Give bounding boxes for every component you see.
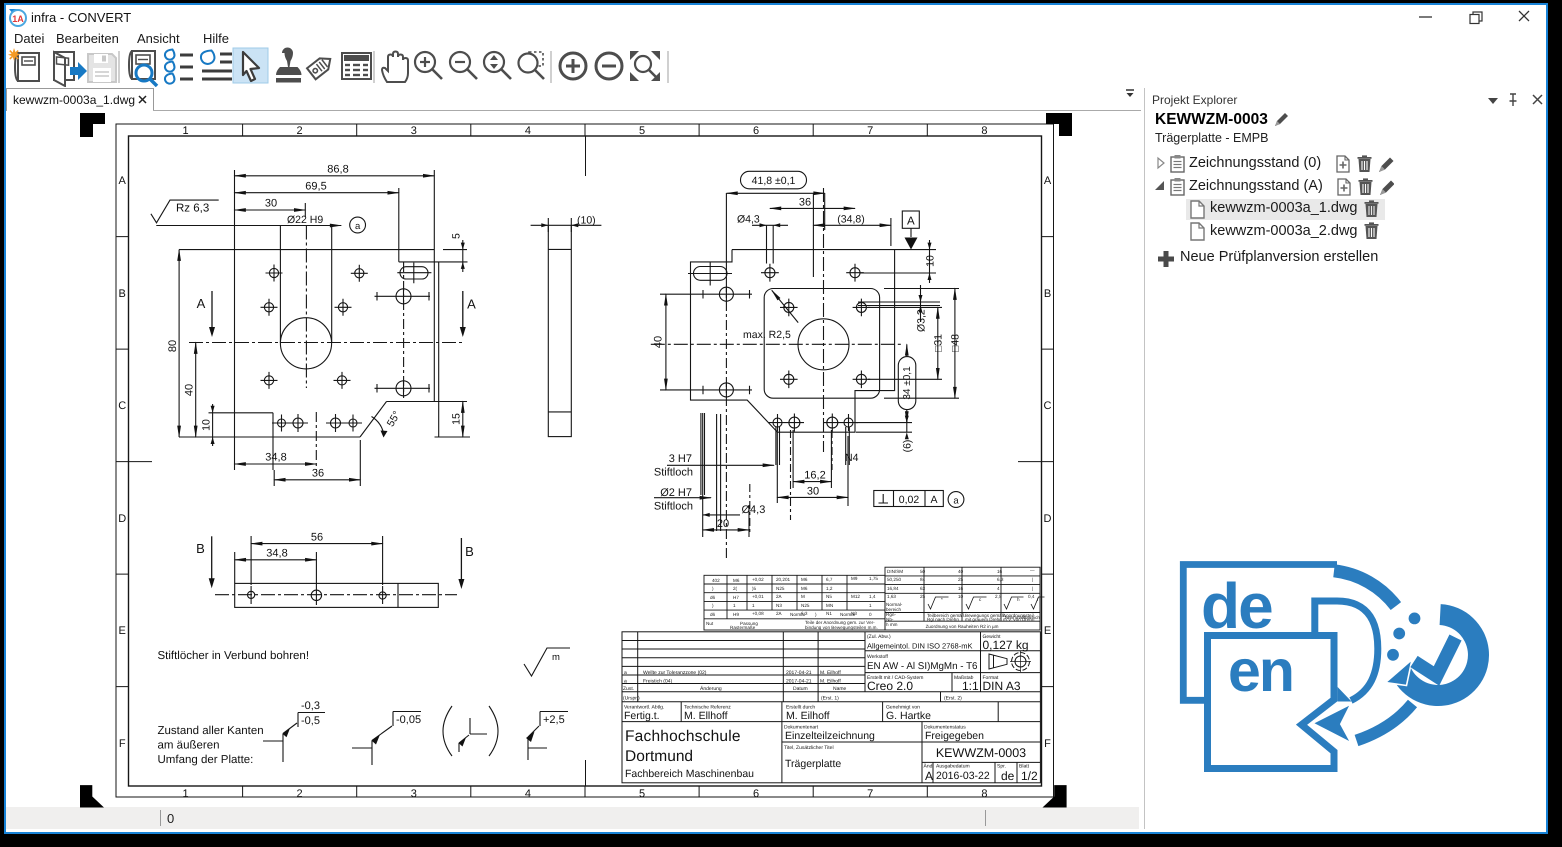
svg-text:Werkstoff: Werkstoff xyxy=(867,654,889,660)
svg-text:25: 25 xyxy=(958,577,964,582)
svg-text:55°: 55° xyxy=(385,409,403,429)
status bar xyxy=(6,807,1139,829)
toolbar xyxy=(0,47,700,87)
svg-text:M. Eilhoff: M. Eilhoff xyxy=(820,670,841,676)
svg-text:c: c xyxy=(979,597,982,602)
svg-text:Dortmund: Dortmund xyxy=(625,748,693,765)
svg-text:(Erst. 1): (Erst. 1) xyxy=(821,696,839,702)
dots xyxy=(1409,613,1421,625)
svg-text:A: A xyxy=(197,296,206,311)
svg-text:1,75: 1,75 xyxy=(869,576,878,581)
drawing-area dropdown chevron xyxy=(1123,87,1137,99)
svg-text:7: 7 xyxy=(867,125,873,137)
plate outline xyxy=(691,250,895,433)
svg-text:+0,02: +0,02 xyxy=(752,577,764,582)
svg-text:Nut: Nut xyxy=(706,621,714,626)
svg-text:+0,01: +0,01 xyxy=(752,594,764,599)
dim (34,8) xyxy=(813,224,891,226)
row 4: kewwzm-0003a_2.dwg xyxy=(1190,222,1390,242)
extension verticals top dims xyxy=(179,170,434,402)
top row holes xyxy=(761,264,864,282)
ring arrowhead xyxy=(1386,660,1413,686)
svg-text:□48: □48 xyxy=(950,334,962,352)
svg-text:10: 10 xyxy=(925,255,937,267)
svg-text:2(: 2( xyxy=(733,586,738,591)
svg-text:EN AW - Al SI)MgMn - T6: EN AW - Al SI)MgMn - T6 xyxy=(867,661,978,672)
dim (10) xyxy=(531,224,602,226)
svg-text:6,7: 6,7 xyxy=(826,577,833,582)
list drops xyxy=(165,50,193,84)
svg-text:15: 15 xyxy=(451,413,463,425)
svg-text:a: a xyxy=(953,495,959,506)
svg-text:Stiftlöcher in Verbund bohren!: Stiftlöcher in Verbund bohren! xyxy=(158,650,310,662)
svg-text:N25: N25 xyxy=(776,586,785,591)
svg-text:Freistich (04): Freistich (04) xyxy=(643,678,673,684)
check ring (annulus sector) xyxy=(1392,604,1489,706)
svg-text:A: A xyxy=(467,297,476,312)
svg-text:8: 8 xyxy=(981,125,987,137)
svg-text:Titel, Zusätzlicher Titel: Titel, Zusätzlicher Titel xyxy=(784,745,834,751)
svg-text:10: 10 xyxy=(958,594,964,599)
svg-text:Ø4,3: Ø4,3 xyxy=(742,504,766,516)
svg-text:|: | xyxy=(1032,577,1033,582)
signature row verticals xyxy=(681,702,998,722)
svg-text:E: E xyxy=(1044,625,1051,637)
svg-text:5: 5 xyxy=(639,788,645,800)
svg-text:DIN A3: DIN A3 xyxy=(983,679,1021,693)
svg-text:d6: d6 xyxy=(710,612,716,617)
svg-text:1,2: 1,2 xyxy=(826,586,833,591)
svg-text:N3: N3 xyxy=(776,603,782,608)
check m symbol xyxy=(524,648,570,676)
svg-text:25: 25 xyxy=(920,594,926,599)
svg-text:0: 0 xyxy=(869,612,872,617)
section A-A xyxy=(209,291,466,337)
corner leader max R2,5 xyxy=(772,290,798,322)
svg-text:10: 10 xyxy=(201,419,213,431)
dim 36 bottom xyxy=(274,479,360,481)
svg-text:A: A xyxy=(1044,175,1052,187)
svg-text:A: A xyxy=(907,216,915,228)
svg-text:30: 30 xyxy=(265,198,277,210)
front square (en) with white fill and arrow notch xyxy=(1208,636,1335,769)
svg-text:F: F xyxy=(1044,738,1051,750)
svg-text:h mm: h mm xyxy=(886,622,898,627)
edge symbol 4 xyxy=(526,712,568,761)
svg-text:20,201: 20,201 xyxy=(776,577,790,582)
svg-text:Creo 2.0: Creo 2.0 xyxy=(867,679,913,693)
thin side view xyxy=(548,225,571,436)
svg-text:M6: M6 xyxy=(801,586,808,591)
A flag xyxy=(902,211,919,228)
tolerance table left xyxy=(704,575,885,630)
svg-text:6,3: 6,3 xyxy=(997,577,1004,582)
svg-text:0,4: 0,4 xyxy=(1028,594,1035,599)
svg-text:): ) xyxy=(815,612,817,617)
svg-text:Normal: Normal xyxy=(790,612,805,617)
tag xyxy=(307,53,335,79)
svg-text:(Urspr.): (Urspr.) xyxy=(623,696,640,702)
svg-text:84: 84 xyxy=(920,577,926,582)
svg-text:Freigegeben: Freigegeben xyxy=(925,730,984,742)
svg-text:M6: M6 xyxy=(801,577,808,582)
svg-text:*: * xyxy=(941,597,943,602)
bottom holes xyxy=(769,414,859,432)
centering marks xyxy=(129,136,1042,786)
svg-text:MN: MN xyxy=(826,603,833,608)
sep xyxy=(550,51,552,83)
svg-text:a: a xyxy=(355,221,361,232)
svg-text:4: 4 xyxy=(997,586,1000,591)
stamp xyxy=(276,48,302,83)
svg-text:Änderung: Änderung xyxy=(700,685,722,692)
svg-text:Ø4,3: Ø4,3 xyxy=(737,214,760,226)
tiny illegible table text (approximation) xyxy=(706,568,1040,630)
svg-text:|: | xyxy=(1032,586,1033,591)
row 1: Zeichnungsstand (0) xyxy=(1154,154,1394,174)
svg-text:de: de xyxy=(1001,769,1015,783)
svg-text:Ø3,2: Ø3,2 xyxy=(916,309,928,332)
svg-text:5: 5 xyxy=(451,233,463,239)
zoom updown xyxy=(484,52,511,79)
sep xyxy=(118,51,120,83)
tolerance frame xyxy=(874,491,964,508)
svg-text:1: 1 xyxy=(182,125,188,137)
svg-text:am äußeren: am äußeren xyxy=(158,740,220,752)
svg-text:A: A xyxy=(925,769,933,783)
projection doubles xyxy=(767,225,774,263)
svg-text:1/2: 1/2 xyxy=(1021,769,1038,783)
svg-text:36: 36 xyxy=(799,197,811,209)
open xyxy=(54,52,87,86)
svg-text:1: 1 xyxy=(733,603,736,608)
svg-text:4: 4 xyxy=(525,788,531,800)
slot top right xyxy=(397,263,431,284)
small arrow at D end xyxy=(1338,687,1352,702)
55 deg arc + label xyxy=(372,417,385,436)
svg-text:2A: 2A xyxy=(776,594,783,599)
sheet frame inner xyxy=(129,136,1042,786)
svg-text:de: de xyxy=(1201,570,1272,642)
holes with long bars right col xyxy=(375,288,431,397)
dim 86,8 xyxy=(235,175,435,177)
trash xyxy=(1358,155,1372,172)
svg-text:Einzelteilzeichnung: Einzelteilzeichnung xyxy=(785,730,875,742)
svg-text:(Zul. Abw.): (Zul. Abw.) xyxy=(867,634,891,640)
svg-text:16: 16 xyxy=(997,569,1003,574)
svg-text:E: E xyxy=(119,625,126,637)
svg-text:N4: N4 xyxy=(845,452,859,464)
svg-text:1,4: 1,4 xyxy=(869,594,876,599)
svg-text:C: C xyxy=(1044,400,1052,412)
big circle + projection lines xyxy=(280,318,331,369)
tolerance table right xyxy=(885,567,1045,630)
svg-text:50,250: 50,250 xyxy=(887,577,901,582)
svg-text:Rgl nach Drehn: Rgl nach Drehn xyxy=(927,617,959,622)
svg-text:N5: N5 xyxy=(826,594,832,599)
svg-text:+0,08: +0,08 xyxy=(752,611,764,616)
plate outline xyxy=(179,188,468,470)
svg-text:)5: )5 xyxy=(752,586,757,591)
svg-text:H7: H7 xyxy=(733,595,739,600)
svg-text:80: 80 xyxy=(167,340,179,352)
svg-text:Fachhochschule: Fachhochschule xyxy=(625,728,741,745)
svg-text:d6: d6 xyxy=(710,595,716,600)
svg-text:69,5: 69,5 xyxy=(305,181,326,193)
svg-text:bindung von Bewegungsteilen m.: bindung von Bewegungsteilen m.m. xyxy=(805,625,878,630)
svg-text:(10): (10) xyxy=(577,215,596,227)
svg-text:Ausgabedatum: Ausgabedatum xyxy=(936,764,970,770)
big outer arc top xyxy=(1334,571,1396,606)
ruler numbers xyxy=(118,125,1052,800)
pencil xyxy=(1379,158,1394,173)
svg-text:63: 63 xyxy=(920,586,926,591)
svg-text:Normal: Normal xyxy=(840,612,855,617)
svg-text:2: 2 xyxy=(297,125,303,137)
check mark xyxy=(1414,638,1456,677)
svg-text:2017-04-21: 2017-04-21 xyxy=(786,678,812,684)
centerlines xyxy=(189,342,463,344)
new-page icon xyxy=(1337,156,1349,172)
svg-text:16,84: 16,84 xyxy=(887,586,899,591)
document tab xyxy=(6,88,154,111)
svg-text:N25: N25 xyxy=(801,603,810,608)
balloon 41,8 xyxy=(726,171,824,282)
right section xyxy=(865,632,981,692)
svg-text:M. Eilhoff: M. Eilhoff xyxy=(820,678,841,684)
svg-text:B: B xyxy=(119,288,126,300)
svg-text:34 ±0,1: 34 ±0,1 xyxy=(902,366,913,400)
svg-text:Allgemeintol. DIN ISO 2768-mK: Allgemeintol. DIN ISO 2768-mK xyxy=(867,642,972,651)
cursor (selected) xyxy=(233,48,268,83)
window buttons xyxy=(1405,8,1540,26)
app icon xyxy=(8,8,27,27)
svg-text:1:1: 1:1 xyxy=(962,679,979,693)
zoom out xyxy=(450,52,477,79)
left col holes with bars xyxy=(700,286,752,397)
svg-text:2017-04-21: 2017-04-21 xyxy=(786,670,812,676)
svg-text:8: 8 xyxy=(981,788,987,800)
dim 34,8 bottom xyxy=(235,463,317,465)
slot top-left xyxy=(688,262,732,286)
svg-text:N1: N1 xyxy=(826,611,832,616)
svg-text:□31: □31 xyxy=(933,334,945,352)
svg-text:40: 40 xyxy=(958,569,964,574)
projection symbol xyxy=(989,651,1031,672)
svg-text:A: A xyxy=(119,175,127,187)
svg-text:M. Eilhoff: M. Eilhoff xyxy=(786,710,830,722)
svg-text:D: D xyxy=(118,513,126,525)
svg-text:1: 1 xyxy=(182,788,188,800)
svg-text:(34,8): (34,8) xyxy=(837,214,864,226)
svg-text:D: D xyxy=(1044,513,1052,525)
svg-text:C: C xyxy=(118,400,126,412)
book search xyxy=(129,51,157,86)
svg-text:30: 30 xyxy=(807,486,819,498)
svg-text:M9: M9 xyxy=(851,576,858,581)
svg-text:—: — xyxy=(1030,568,1035,573)
svg-text:Wellte zur Toleranzzone (02): Wellte zur Toleranzzone (02) xyxy=(643,670,707,676)
zoom rect xyxy=(519,52,545,79)
svg-text:): ) xyxy=(712,603,714,608)
balloon 34 +-0,1 xyxy=(856,344,916,422)
svg-text:Fachbereich Maschinenbau: Fachbereich Maschinenbau xyxy=(625,768,754,780)
dim O4,3 top xyxy=(752,224,788,226)
svg-text:en: en xyxy=(1228,638,1293,704)
svg-text:Nennmaßbereich: Nennmaßbereich xyxy=(1005,615,1041,620)
svg-text:Stiftloch: Stiftloch xyxy=(654,467,693,479)
svg-text:5: 5 xyxy=(639,125,645,137)
dim sq31 xyxy=(868,307,942,379)
svg-text:1,63: 1,63 xyxy=(887,594,896,599)
svg-text:+2,5: +2,5 xyxy=(543,714,565,726)
title block texts xyxy=(623,634,1038,783)
svg-text:0,02: 0,02 xyxy=(899,494,920,506)
svg-text:M. Ellhoff: M. Ellhoff xyxy=(684,710,728,722)
svg-text:m: m xyxy=(552,652,560,663)
circle minus xyxy=(596,53,622,79)
fit zoom xyxy=(630,51,660,81)
title bar text xyxy=(31,10,131,25)
bottom section xyxy=(782,722,922,783)
dim 80 xyxy=(178,250,180,437)
svg-text:3: 3 xyxy=(411,125,417,137)
svg-text:M12: M12 xyxy=(851,594,860,599)
svg-text:B: B xyxy=(196,541,205,556)
small holes with cross xyxy=(266,265,283,282)
dim 69,5 xyxy=(235,192,399,194)
circle plus xyxy=(560,53,586,79)
svg-text:DIN/SM: DIN/SM xyxy=(887,569,903,574)
dim 10 right xyxy=(860,250,936,273)
svg-text:20: 20 xyxy=(717,518,729,530)
save (disabled) xyxy=(88,54,116,82)
svg-text:Rz 6,3: Rz 6,3 xyxy=(176,203,209,215)
svg-text:A: A xyxy=(930,494,937,506)
dim 40 left xyxy=(665,294,667,390)
svg-text:Ø22 H9: Ø22 H9 xyxy=(287,214,323,226)
svg-text:36: 36 xyxy=(312,468,324,480)
svg-text:2016-03-22: 2016-03-22 xyxy=(936,770,990,782)
row 2: Zeichnungsstand (A) xyxy=(1154,177,1394,197)
svg-text:mit grauem Drehn: mit grauem Drehn xyxy=(965,617,1002,622)
sep xyxy=(373,51,375,83)
svg-text:40: 40 xyxy=(653,336,665,348)
dim 20 xyxy=(703,529,749,531)
table xyxy=(342,53,371,79)
leader O22 H9 xyxy=(156,225,341,227)
svg-text:B: B xyxy=(465,544,474,559)
svg-text:2,5: 2,5 xyxy=(995,594,1002,599)
svg-text:3 H7: 3 H7 xyxy=(669,453,692,465)
zoom in xyxy=(415,52,442,79)
svg-text:-0,05: -0,05 xyxy=(396,714,421,726)
sheet frame outer xyxy=(116,124,1054,797)
svg-text:1: 1 xyxy=(752,603,755,608)
svg-text:41,8 ±0,1: 41,8 ±0,1 xyxy=(752,175,796,187)
svg-text:7: 7 xyxy=(867,788,873,800)
centerlines xyxy=(651,343,902,345)
svg-text:2: 2 xyxy=(297,788,303,800)
plus row xyxy=(1157,250,1175,268)
svg-text:G. Hartke: G. Hartke xyxy=(886,710,931,722)
dim 15 xyxy=(462,402,464,438)
dim 30 xyxy=(235,209,306,211)
svg-text:): ) xyxy=(712,586,714,591)
dim (6) xyxy=(856,412,912,432)
ruler tick lines xyxy=(116,124,1054,797)
svg-text:Trägerplatte: Trägerplatte xyxy=(785,758,841,770)
svg-text:(Erst. 2): (Erst. 2) xyxy=(944,696,962,702)
svg-text:50: 50 xyxy=(920,569,926,574)
B-B section view xyxy=(235,583,439,607)
dim sq48 xyxy=(884,289,959,399)
svg-text:KEWWZM-0003: KEWWZM-0003 xyxy=(936,746,1026,760)
svg-text:(6): (6) xyxy=(902,440,914,453)
svg-text:H9: H9 xyxy=(733,612,739,617)
bottom hole pairs xyxy=(272,414,362,432)
svg-text:M: M xyxy=(801,594,805,599)
svg-text:16,2: 16,2 xyxy=(804,470,825,482)
edge symbol 1 xyxy=(263,700,325,762)
svg-text:Umfang der Platte:: Umfang der Platte: xyxy=(158,754,254,766)
svg-text:Zuordnung von Rauheiten R2 in: Zuordnung von Rauheiten R2 in µm xyxy=(926,624,999,629)
svg-text:M6: M6 xyxy=(733,578,740,583)
svg-text:0,127 kg: 0,127 kg xyxy=(983,638,1029,652)
4 holes in square xyxy=(780,299,870,389)
svg-text:Name: Name xyxy=(833,686,847,692)
Rz 6,3 symbol xyxy=(151,200,219,223)
svg-text:1: 1 xyxy=(869,603,872,608)
svg-text:Zustand aller Kanten: Zustand aller Kanten xyxy=(158,725,264,737)
edge symbol 3 (in parens) xyxy=(443,706,498,756)
svg-text:6: 6 xyxy=(753,125,759,137)
svg-text:Datum: Datum xyxy=(793,686,808,692)
dim 10 xyxy=(212,404,214,446)
dim O3,2 xyxy=(920,285,922,322)
panel divider xyxy=(1144,88,1145,829)
title block xyxy=(622,632,1040,783)
svg-text:Zust.: Zust. xyxy=(623,686,634,692)
dim 36 xyxy=(770,207,855,209)
edge symbol 2 xyxy=(352,712,421,766)
svg-text:40: 40 xyxy=(184,384,196,396)
svg-text:34,8: 34,8 xyxy=(266,548,287,560)
dim 5 xyxy=(462,240,464,272)
lower band to ring xyxy=(1357,704,1413,741)
svg-text:-0,3: -0,3 xyxy=(301,700,320,712)
svg-text:-0,5: -0,5 xyxy=(301,715,320,727)
svg-text:Rastermaße: Rastermaße xyxy=(730,625,756,630)
corner crop marks xyxy=(80,113,1072,808)
svg-text:6: 6 xyxy=(753,788,759,800)
svg-text:56: 56 xyxy=(311,532,323,544)
center circle xyxy=(798,319,849,370)
svg-text:B: B xyxy=(1044,288,1051,300)
svg-text:F: F xyxy=(119,738,126,750)
svg-text:34,8: 34,8 xyxy=(265,452,286,464)
placeholder groups xyxy=(151,164,476,487)
dim 30 xyxy=(777,496,848,498)
svg-text:2A: 2A xyxy=(776,611,783,616)
change table left xyxy=(622,641,1040,692)
svg-text:a: a xyxy=(624,678,627,684)
svg-text:Stiftloch: Stiftloch xyxy=(654,501,693,513)
inner D xyxy=(1315,601,1378,701)
svg-text:4: 4 xyxy=(525,125,531,137)
list single drop xyxy=(201,51,232,80)
back square (de) xyxy=(1183,565,1337,701)
